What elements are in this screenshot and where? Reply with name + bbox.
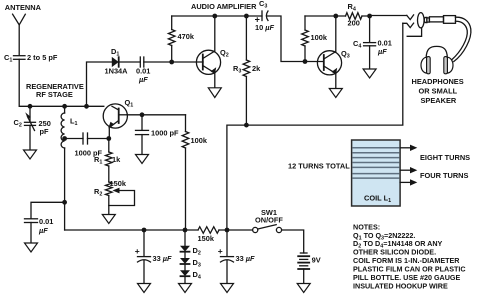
node Q3 base (303, 59, 308, 64)
svg-text:+: + (135, 246, 140, 256)
svg-text:FOUR TURNS: FOUR TURNS (420, 171, 469, 180)
plug neck (427, 18, 430, 22)
svg-text:150k: 150k (198, 234, 215, 243)
antenna (13, 14, 26, 55)
node Q1 collector 1000pF (140, 112, 145, 117)
capacitor 1000pF collector (136, 115, 149, 155)
svg-text:150k: 150k (110, 179, 127, 188)
svg-text:INSULATED HOOKUP WIRE: INSULATED HOOKUP WIRE (353, 281, 448, 290)
svg-text:2k: 2k (252, 64, 261, 73)
node L1 bottom junction (62, 200, 67, 205)
switch SW1 (253, 225, 282, 233)
ground below C4 (363, 69, 376, 78)
coil tap arrow middle (400, 167, 417, 173)
svg-text:SPEAKER: SPEAKER (421, 96, 457, 105)
wire D4 to ground (184, 276, 186, 283)
node rail R3 (244, 14, 249, 19)
svg-text:12 TURNS TOTAL: 12 TURNS TOTAL (288, 162, 350, 171)
headphone cable (452, 17, 471, 61)
wire junction to 0.01uF (31, 202, 65, 218)
node Q1 emitter (106, 136, 111, 141)
node bus-C2 (28, 104, 33, 109)
svg-text:200: 200 (348, 19, 360, 28)
wire emitter to R1 (108, 139, 110, 153)
wire R2 to ground (108, 196, 110, 215)
diode D2 (180, 230, 190, 252)
diode D3 (180, 252, 190, 264)
plug barrel (429, 17, 443, 22)
transistor Q2 (196, 16, 220, 88)
svg-text:AUDIO AMPLIFIER: AUDIO AMPLIFIER (191, 2, 257, 11)
node Q2 base (169, 60, 174, 65)
capacitor 0.01uF coupling (140, 57, 203, 67)
ground below Q3 (329, 89, 342, 98)
transistor Q3 (317, 16, 341, 89)
node bus-D1 (84, 104, 89, 109)
coil tap arrow bottom (400, 179, 417, 185)
capacitor 33uF first (138, 230, 151, 284)
capacitor 1000pF tap (65, 133, 109, 144)
svg-text:100k: 100k (191, 136, 208, 145)
ground below C2 (24, 150, 37, 159)
capacitor C1 (14, 56, 26, 60)
coil L1 form box (352, 140, 401, 206)
ground below 33uF second (221, 284, 234, 293)
node R4 C4 (367, 14, 372, 19)
wire switch to battery (282, 230, 304, 253)
ground below R2 (102, 215, 115, 224)
headphones icon (421, 46, 453, 73)
capacitor C4 (364, 16, 376, 69)
capacitor C2 variable (25, 106, 36, 150)
top supply rail (172, 15, 262, 17)
svg-text:9V: 9V (312, 256, 321, 265)
svg-text:100k: 100k (311, 33, 328, 42)
svg-text:33 µF: 33 µF (153, 254, 173, 263)
R2 wiper (109, 188, 135, 206)
svg-text:pF: pF (40, 127, 50, 136)
node bus diodes (183, 228, 188, 233)
svg-text:2 to 5 pF: 2 to 5 pF (27, 53, 58, 62)
svg-text:470k: 470k (178, 32, 195, 41)
jack bushing (418, 13, 425, 28)
capacitor C3 10uF (262, 11, 324, 62)
ground below 33uF first (138, 284, 151, 293)
diode D4 (180, 264, 190, 276)
svg-text:µF: µF (38, 226, 48, 235)
svg-text:1000 pF: 1000 pF (151, 129, 179, 138)
resistor R2 150k pot (106, 182, 113, 195)
jack sleeve lug (407, 28, 421, 36)
ground below 1000pF (136, 155, 149, 164)
node bus 33uF second (225, 228, 230, 233)
ground below diodes (179, 284, 192, 293)
wire jack return (227, 23, 403, 230)
resistor 470k (168, 16, 175, 62)
wire L1 junction to bottom bus (64, 202, 66, 230)
wire D1 riser (87, 62, 112, 106)
svg-text:ANTENNA: ANTENNA (5, 3, 42, 12)
resistor 100k bias (302, 16, 309, 62)
ground below 0.01uF (25, 243, 38, 252)
resistor R1 1k (106, 152, 113, 166)
svg-text:µF: µF (138, 75, 148, 84)
svg-text:0.01: 0.01 (39, 217, 53, 226)
svg-text:EIGHT TURNS: EIGHT TURNS (420, 153, 470, 162)
resistor 150k dropping (198, 227, 219, 234)
resistor R3 2k (243, 16, 250, 125)
wire antenna to bus (19, 59, 104, 106)
resistor 100k load (182, 115, 189, 230)
node return R3 (244, 123, 249, 128)
node bus-L1 (62, 104, 67, 109)
coil tap arrow top (400, 145, 417, 151)
wire R4 to jack (362, 15, 407, 18)
battery 9V (298, 253, 309, 284)
transistor Q1 (103, 104, 127, 139)
diode D1 (112, 57, 119, 67)
svg-text:RF STAGE: RF STAGE (36, 90, 73, 99)
svg-text:µF: µF (377, 47, 387, 56)
svg-text:COIL L1: COIL L1 (364, 194, 391, 205)
jack tip contact (407, 15, 414, 20)
jack ring contact (403, 23, 414, 28)
capacitor 0.01uF bottom-left (25, 219, 38, 243)
node L1 tap (62, 136, 67, 141)
svg-text:OR SMALL: OR SMALL (419, 87, 458, 96)
svg-text:+: + (218, 246, 223, 256)
wire Q1 collector (127, 114, 186, 116)
wire D1 to cap (119, 61, 141, 63)
resistor R4 200 (346, 13, 363, 20)
node bus 33uF first (142, 228, 147, 233)
svg-text:10 µF: 10 µF (255, 23, 275, 32)
wire rail Q3 (305, 15, 346, 17)
svg-text:33 µF: 33 µF (236, 254, 256, 263)
ground below battery (297, 284, 310, 293)
bottom supply bus (65, 229, 253, 231)
node Q3 collector rail (333, 14, 338, 19)
node Q2 collector rail (212, 14, 217, 19)
notes text (353, 222, 466, 290)
wire R1 to R2 (108, 166, 110, 182)
plug handle (444, 16, 456, 24)
inductor L1 (61, 106, 64, 202)
svg-text:1k: 1k (112, 155, 121, 164)
svg-text:HEADPHONES: HEADPHONES (412, 77, 464, 86)
svg-text:ON/OFF: ON/OFF (255, 216, 283, 225)
svg-text:1N34A: 1N34A (105, 67, 129, 76)
plug tip (424, 17, 427, 22)
ground below Q2 (208, 88, 221, 98)
capacitor 33uF second (221, 230, 234, 284)
